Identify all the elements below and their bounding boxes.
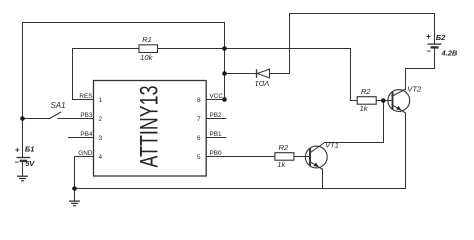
wire GND node to ground symbol	[74, 189, 76, 201]
svg-text:VT1: VT1	[325, 141, 339, 150]
svg-text:–: –	[427, 47, 432, 56]
svg-text:–: –	[15, 158, 20, 167]
wire R1 row left	[73, 48, 140, 50]
wire GND pin stub	[75, 156, 94, 158]
wire VCC vertical	[224, 23, 226, 100]
switch SA1	[50, 101, 66, 118]
wire bottom bus	[75, 188, 406, 190]
svg-text:VD1: VD1	[255, 79, 270, 88]
svg-text:VCC: VCC	[210, 93, 224, 100]
wire top-right horizontal	[290, 13, 435, 15]
battery B2 (Б2 4.2V)	[426, 32, 458, 58]
wire down to R2 top	[351, 49, 358, 101]
node B (R1/VCC junction)	[222, 46, 227, 51]
wire VT1 emitter down	[322, 169, 324, 189]
svg-text:R2: R2	[278, 143, 288, 152]
wire VCC pin stub	[206, 99, 224, 101]
wire R1 row right to corner	[158, 48, 351, 50]
wire RES stub	[73, 99, 94, 101]
wire PB2 stub	[206, 118, 226, 120]
svg-text:SA1: SA1	[50, 101, 65, 110]
wire VT2 emitter down to bus	[405, 113, 407, 189]
svg-text:PB0: PB0	[210, 150, 223, 157]
svg-text:3: 3	[99, 135, 103, 142]
resistor R2 1k (VT1 base)	[275, 143, 294, 169]
wire GND vertical to bus	[74, 157, 76, 189]
IC U1 ATTINY13	[78, 81, 223, 177]
svg-text:GND: GND	[78, 150, 93, 157]
wire PB0 row to R2	[206, 156, 275, 158]
svg-text:R2: R2	[361, 87, 371, 96]
transistor VT1	[305, 141, 339, 170]
svg-text:VT2: VT2	[407, 85, 422, 94]
resistor R1 10k	[139, 35, 158, 62]
svg-text:1k: 1k	[277, 160, 286, 169]
node F (VCC pin junction)	[222, 97, 227, 102]
svg-text:1: 1	[99, 97, 103, 104]
svg-text:+: +	[15, 145, 20, 154]
svg-text:Б1: Б1	[25, 145, 34, 154]
svg-text:+: +	[426, 32, 431, 41]
wire R2 to VT1 base	[294, 156, 310, 158]
svg-text:ATTINY13: ATTINY13	[136, 86, 164, 168]
svg-text:1k: 1k	[359, 104, 368, 113]
wire diode row from VCC node	[225, 73, 257, 75]
svg-text:5V: 5V	[25, 159, 35, 168]
node A (switch junction)	[20, 116, 25, 121]
node C (diode/VCC junction)	[222, 71, 227, 76]
svg-text:Б2: Б2	[436, 33, 446, 42]
svg-text:PB1: PB1	[210, 131, 223, 138]
wire switch left segment	[23, 118, 50, 120]
node E (ground bus junction)	[72, 186, 77, 191]
wire R1 left leg vertical	[72, 49, 74, 100]
wire up right of diode	[289, 14, 291, 74]
svg-text:PB4: PB4	[80, 131, 93, 138]
svg-text:7: 7	[197, 116, 201, 123]
wire left vertical to battery	[22, 23, 24, 158]
svg-text:RES: RES	[79, 93, 92, 100]
svg-text:4.2В: 4.2В	[441, 49, 458, 58]
wire VT2 base from R2	[376, 100, 392, 102]
svg-text:4: 4	[99, 154, 103, 161]
wire diode anode to corner	[270, 73, 290, 75]
node D (VT2 base junction)	[381, 98, 386, 103]
wire PB1 stub	[206, 137, 226, 139]
wire VT2 base node down	[325, 101, 384, 143]
wire battery B1 bottom to ground	[22, 162, 24, 177]
wire switch right segment to PB3	[58, 118, 94, 120]
svg-text:5: 5	[197, 154, 201, 161]
svg-text:8: 8	[197, 97, 201, 104]
diode VD1	[255, 69, 270, 88]
svg-text:10k: 10k	[140, 53, 153, 62]
wire battery B2 bottom	[406, 48, 435, 89]
svg-text:R1: R1	[142, 35, 152, 44]
resistor R2 1k (VT2 base)	[357, 87, 376, 113]
wire battery B2 top	[434, 14, 436, 44]
transistor VT2	[388, 85, 422, 113]
ground (GND bus)	[69, 201, 80, 206]
wire top-left horizontal	[23, 22, 225, 24]
battery B1 (Б1 5V)	[15, 145, 36, 168]
svg-text:PB3: PB3	[80, 112, 93, 119]
svg-text:6: 6	[197, 135, 201, 142]
svg-text:2: 2	[99, 116, 103, 123]
wire PB4 stub	[69, 137, 94, 139]
svg-text:PB2: PB2	[210, 112, 223, 119]
ground (battery B1)	[17, 176, 28, 181]
